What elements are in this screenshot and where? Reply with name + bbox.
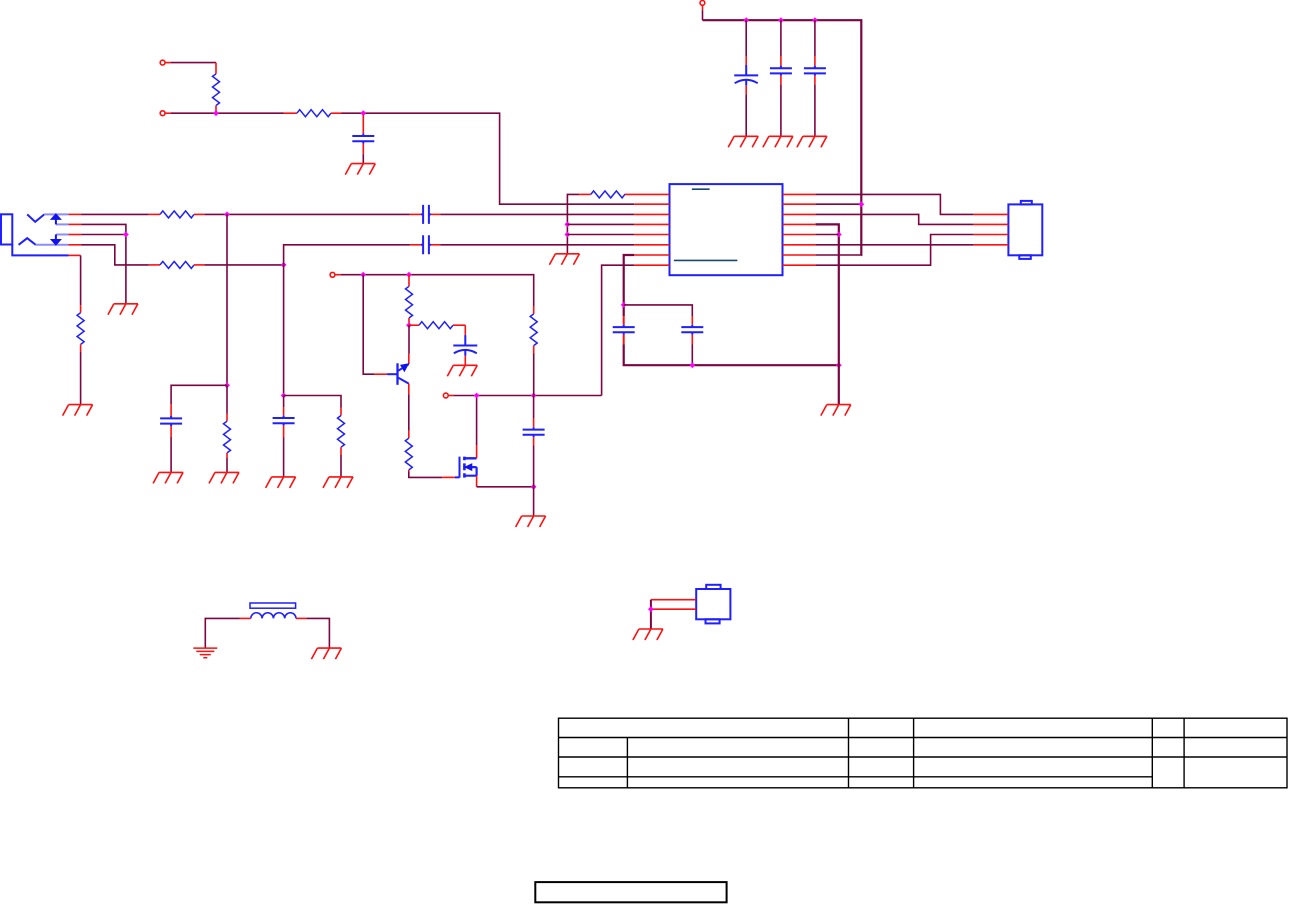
- pin to Q2 gate: [442, 476, 455, 478]
- mosfet Q2: [455, 457, 477, 478]
- wire Q1 collector down to R10: [408, 394, 410, 430]
- jack J2 body: [1, 214, 69, 255]
- wire C6 to ground: [170, 437, 172, 472]
- wire C12 to bottom rail: [691, 344, 693, 365]
- capacitor C3: [780, 56, 782, 66]
- pin of J1-1: [165, 62, 171, 64]
- ground: [266, 477, 296, 488]
- wire node row3 down to node C: [226, 214, 228, 385]
- jack switch arrow up: [51, 214, 61, 225]
- wire R7 to ground: [340, 455, 342, 477]
- wire top input to R1: [171, 62, 216, 64]
- pin of T2: [335, 274, 341, 276]
- wire R1 to connector pin 1: [816, 194, 974, 214]
- node T1 junction: [360, 272, 366, 278]
- jack pins (red): [69, 214, 82, 255]
- terminal VCC: [700, 1, 705, 6]
- capacitor C2 (polarized): [745, 57, 747, 66]
- terminal J1-1: [160, 60, 165, 65]
- wire C10 to node I: [533, 445, 535, 487]
- capacitor C8: [283, 407, 285, 415]
- wire L5 tie: [567, 234, 634, 236]
- capacitor C5 (series): [410, 213, 421, 215]
- capacitor C6: [170, 404, 172, 416]
- wire R5 to ground: [80, 352, 82, 405]
- wire R6 to connector pin 4: [816, 244, 974, 246]
- ground: [108, 304, 138, 315]
- wire C7 to IC pin L6: [440, 244, 634, 246]
- capacitor C10: [533, 418, 535, 427]
- capacitor C12: [691, 316, 693, 325]
- wire rail to C4: [814, 20, 816, 56]
- wire R3 to connector pin 2: [816, 214, 974, 224]
- resistor R3: [149, 213, 160, 215]
- node rail junction 1: [743, 17, 749, 23]
- wire R6 to ground: [226, 458, 228, 472]
- wire R2 to corner toward IC pin L2: [342, 113, 635, 204]
- mosfet drain pin: [476, 445, 478, 458]
- wire R5 to bus: [816, 234, 839, 236]
- wire R12 to ground drop: [567, 194, 579, 253]
- node row3 junction: [224, 212, 230, 218]
- node F junction: [621, 302, 627, 308]
- wire node H down to C10: [533, 396, 535, 419]
- component J4 bottom tab: [706, 619, 720, 623]
- connector J3 top tab: [1021, 201, 1032, 205]
- wire node B down to node D: [283, 265, 285, 396]
- wire jack ring2 to ground tie: [81, 224, 126, 234]
- ground: [447, 365, 477, 376]
- capacitor C9 (polarized): [464, 325, 466, 335]
- wire VCC stub: [702, 10, 704, 20]
- wire row T: [341, 275, 534, 306]
- node bottom rail junction 1: [689, 362, 695, 368]
- resistor R2 (horizontal): [284, 112, 297, 114]
- node E junction: [406, 322, 412, 328]
- wire ferrite left to earth: [205, 618, 240, 648]
- node rail junction 3: [812, 17, 818, 23]
- capacitor C1: [362, 115, 364, 134]
- wire rail to C2: [745, 20, 747, 56]
- IC left pins: [624, 194, 669, 265]
- node L5 tie junction: [565, 232, 571, 238]
- pin of J1-2: [165, 112, 171, 114]
- ferrite bead FB1 coil: [251, 613, 296, 619]
- wire C5 to IC pin L3: [440, 213, 634, 215]
- node R5 junction: [836, 232, 842, 238]
- wire C1 to ground: [362, 154, 364, 164]
- IC right pins: [783, 194, 816, 265]
- capacitor C11 (in line): [623, 316, 625, 325]
- capacitor C4: [814, 56, 816, 66]
- wire L7 bulk cap feed (bus): [624, 255, 635, 316]
- component J4 body: [696, 589, 730, 619]
- wire C8 to ground: [283, 438, 285, 477]
- wire R3 to series cap C5: [205, 213, 410, 215]
- ground: [763, 136, 793, 147]
- wire sleeve to R5: [80, 255, 82, 305]
- ferrite pins: [240, 617, 251, 619]
- resistor R12 (at pin L1): [579, 193, 591, 195]
- node I junction: [531, 484, 537, 490]
- wire row T corner down through R11: [533, 305, 535, 307]
- connector J3 body: [1008, 204, 1042, 255]
- ground: [209, 472, 239, 483]
- wire input row to R2: [171, 112, 284, 114]
- pin of VCC terminal: [702, 5, 704, 10]
- wire node C down to R6: [226, 385, 228, 414]
- ground: [821, 405, 851, 416]
- node rail junction 2: [778, 17, 784, 23]
- IC U1 label bar bottom: [674, 259, 738, 261]
- wire R4 to node B: [205, 264, 284, 266]
- node D junction: [281, 393, 287, 399]
- resistor R10 (vertical): [408, 431, 410, 439]
- component J4 pins: [651, 599, 696, 601]
- node H junction: [531, 393, 537, 399]
- resistor R7 (vertical): [340, 408, 342, 416]
- ground: [516, 516, 546, 527]
- wire rail to C3: [780, 20, 782, 56]
- transistor Q1: [408, 354, 410, 364]
- wire node D to C8: [283, 396, 285, 408]
- wire jack contact4 down to row8: [81, 245, 149, 265]
- terminal T3: [443, 393, 448, 398]
- resistor R9 (horizontal): [409, 324, 419, 326]
- wire power rail (bus): [703, 20, 862, 255]
- title box: [535, 882, 726, 902]
- wire node T1 down to Q1 base: [363, 275, 374, 375]
- wire node C left to C6: [171, 385, 227, 404]
- ground: [345, 164, 375, 175]
- resistor R11 (vertical): [533, 306, 535, 314]
- jack contact stubs (light): [36, 214, 69, 244]
- wire L8 to gate row: [602, 265, 635, 395]
- wire R7 to power bus: [816, 254, 862, 256]
- node G junction: [474, 393, 480, 399]
- capacitor C7 (series): [410, 244, 421, 246]
- connector J3 pins: [974, 214, 1009, 244]
- node B junction: [281, 262, 287, 268]
- wire ferrite right to ground: [307, 618, 330, 648]
- component J4 top tab: [706, 585, 720, 589]
- ground: [63, 405, 93, 416]
- node T2 junction: [406, 272, 412, 278]
- wire node I to ground: [533, 487, 535, 516]
- resistor R1 (vertical): [215, 63, 217, 74]
- wire C3 to ground: [780, 85, 782, 137]
- wire L4 tie: [567, 223, 634, 225]
- wire jack ring3 to ground tie: [81, 235, 126, 304]
- ground: [549, 254, 579, 265]
- node L4 tie junction: [565, 222, 571, 228]
- wire R8 to connector pin 3: [816, 235, 974, 266]
- wire node F right to C12: [624, 305, 693, 316]
- ground: [633, 629, 663, 640]
- node N1 junction: [360, 110, 366, 116]
- wire R10 to Q2 gate: [409, 472, 442, 478]
- resistor R6 (vertical): [226, 414, 228, 421]
- pin of T3: [448, 395, 453, 397]
- wire node B up to row6 and right through C7: [284, 245, 410, 265]
- ground: [728, 136, 758, 147]
- resistor R5 (vertical): [80, 305, 82, 313]
- ground: [323, 477, 353, 488]
- IC U1 body: [670, 184, 783, 275]
- wire jack tip row to R3: [81, 213, 149, 215]
- earth ground: [193, 648, 217, 658]
- wire gate row: [453, 395, 601, 397]
- wire source to node I: [477, 486, 534, 488]
- wire node E to Q1 emitter: [408, 325, 410, 354]
- connector J3 bottom tab: [1019, 255, 1031, 259]
- resistor R8 (vertical): [408, 275, 410, 287]
- resistor R4: [149, 264, 160, 266]
- wire C2 to ground: [745, 94, 747, 136]
- ferrite bead FB1 core: [250, 603, 296, 608]
- wire drain up to node G: [476, 396, 478, 446]
- revision table: [559, 718, 1288, 788]
- IC U1 label bar top: [692, 188, 710, 190]
- node jack ground junction: [123, 232, 129, 238]
- ground: [797, 136, 827, 147]
- wire C4 to ground: [814, 85, 816, 137]
- wire node D right to R7: [284, 396, 341, 408]
- node J1 junction: [213, 110, 219, 116]
- ground: [153, 472, 183, 483]
- node J4 junction: [648, 606, 654, 612]
- wire R11 to node H: [533, 354, 535, 396]
- wire R2 to power bus: [816, 203, 862, 205]
- node bottom rail junction 2: [836, 362, 842, 368]
- wire R4 down (bus): [816, 224, 839, 404]
- node C junction: [224, 382, 230, 388]
- terminal T2: [330, 272, 335, 277]
- ground: [311, 648, 341, 659]
- terminal J1-2: [160, 111, 165, 116]
- wire J4 pins to ground: [650, 600, 652, 629]
- mosfet source pin: [476, 476, 478, 487]
- jack switch arrow down: [51, 235, 61, 246]
- node bus junction: [858, 201, 864, 207]
